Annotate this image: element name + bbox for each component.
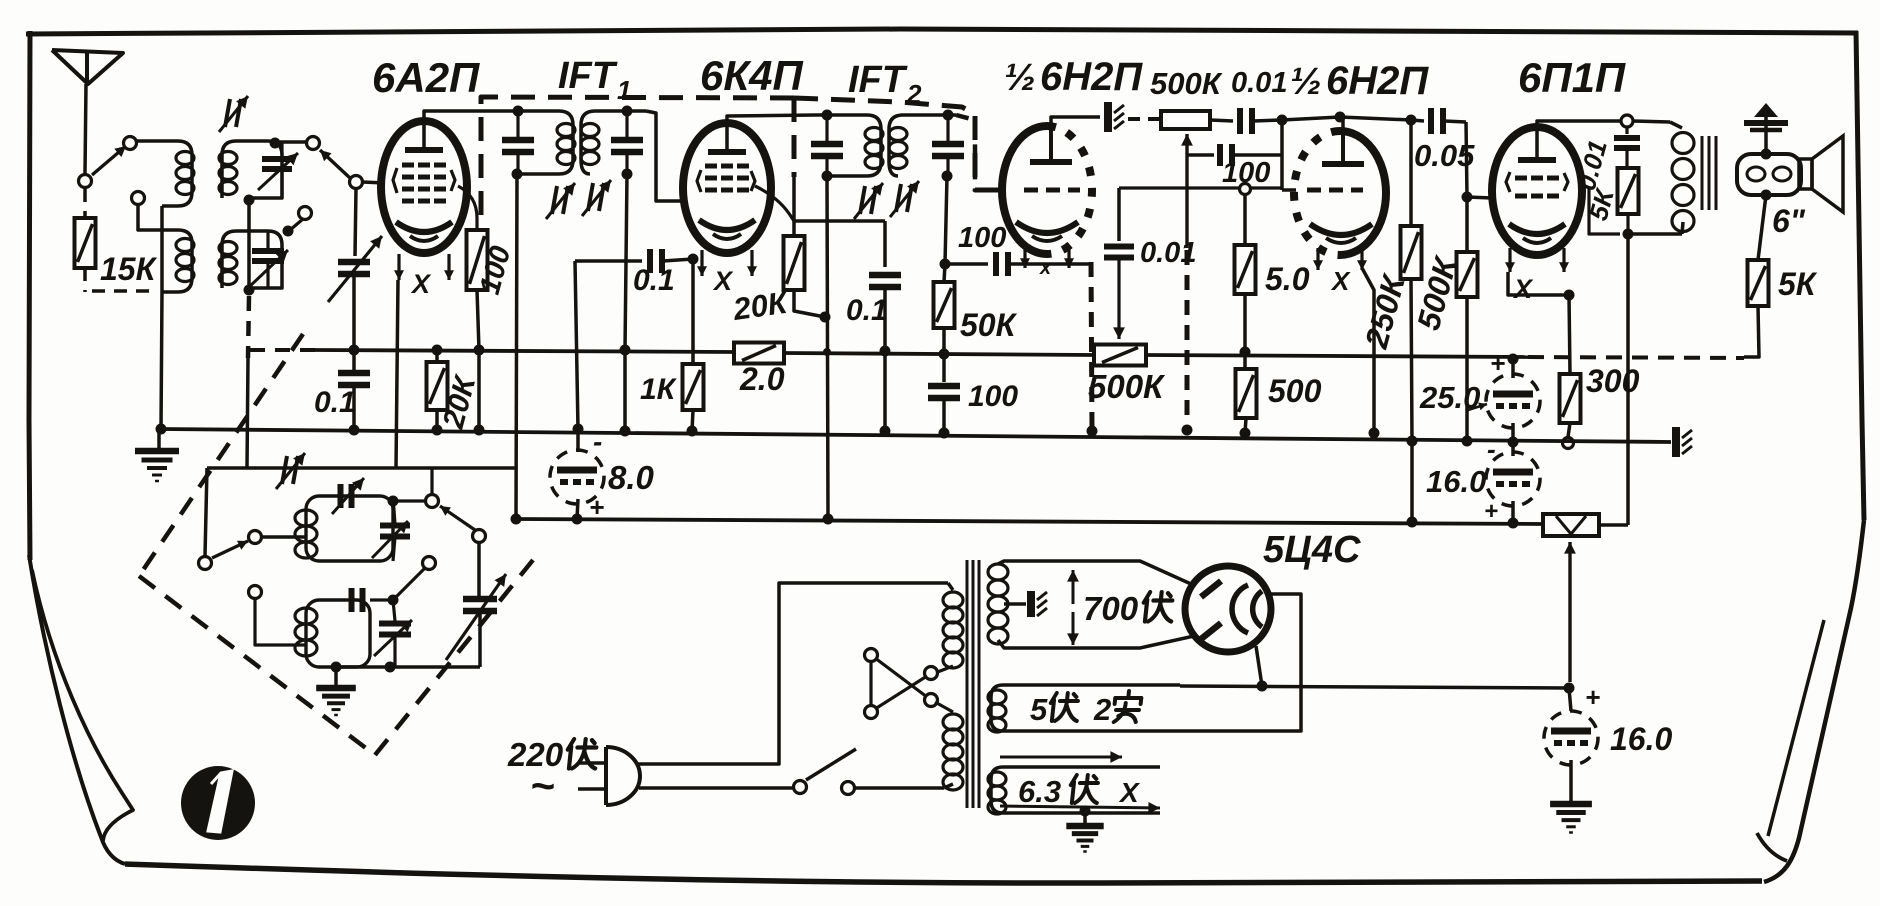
- 5V winding box: [991, 685, 1180, 731]
- band switch arm S1b: [320, 150, 350, 178]
- tube 6N2P-1 envelope: [1002, 126, 1092, 254]
- osc bottom wire: [336, 665, 480, 669]
- node 100 branch: [940, 259, 951, 270]
- cap 100 pot: [1187, 144, 1282, 166]
- wire 5C4S filament out: [1256, 646, 1262, 686]
- tube 6A2P envelope: [381, 121, 467, 253]
- resistor 300: [1560, 295, 1581, 437]
- speaker chassis symbol: [1744, 103, 1788, 154]
- tube 6P1P cathode wire: [1508, 272, 1569, 295]
- wire 20K to B feed: [794, 290, 825, 317]
- cap 16.0 first: [1486, 442, 1540, 523]
- primary tap contact U1: [925, 667, 938, 680]
- osc switch contact C1: [199, 557, 212, 570]
- variable cap VC1: [328, 236, 382, 302]
- tube 6N2P-1 cathode arc: [1016, 222, 1078, 241]
- wire pot to OT column: [1599, 523, 1628, 527]
- node IFT1 pri top: [513, 106, 524, 117]
- svg-text:+: +: [1585, 682, 1600, 712]
- osc contact E1: [423, 557, 436, 570]
- wire grid2 stub: [1282, 188, 1296, 192]
- svg-text:16.0: 16.0: [1610, 721, 1672, 757]
- tube 6A2P internals: [396, 150, 452, 241]
- node cathode2 gnd: [1369, 428, 1380, 439]
- node output grid: [1462, 192, 1473, 203]
- trim symbol osc: [276, 453, 305, 489]
- svg-text:50К: 50К: [960, 307, 1018, 343]
- svg-text:0.1: 0.1: [633, 264, 675, 297]
- tube 6N2P-1 pins: [1020, 246, 1074, 268]
- wire 100 to AVC bus: [477, 290, 479, 350]
- cap IFT2 secondary: [932, 115, 964, 176]
- IFT1 secondary box: [581, 111, 646, 174]
- tube 6A2P grid brackets: [393, 168, 455, 193]
- node L3b right: [388, 595, 399, 606]
- tube 6N2P-1 anode wire: [1051, 117, 1100, 126]
- svg-text:500К: 500К: [1150, 66, 1223, 101]
- wire 5K to bus: [1744, 306, 1759, 357]
- wire 0.05 down: [1466, 122, 1467, 197]
- page curl bottom-left inner fold2: [32, 570, 133, 841]
- wire 5K tone down: [1626, 214, 1629, 234]
- tube 5C4S envelope: [1185, 566, 1271, 652]
- node 50K AVC: [939, 349, 950, 360]
- chassis cap plate1: [1108, 102, 1124, 132]
- osc coil L3a box: [306, 496, 393, 561]
- coil L2a loops: [219, 152, 237, 195]
- node 8.0 bottom: [572, 514, 583, 525]
- node 25 gnd: [1508, 437, 1519, 448]
- osc switch contact D1: [426, 495, 439, 508]
- wire plate2 link: [1282, 117, 1340, 120]
- grid node contact: [350, 176, 363, 189]
- svg-text:2: 2: [1093, 692, 1111, 727]
- 6.3V winding box: [991, 767, 1160, 813]
- svg-text:100: 100: [958, 222, 1006, 254]
- page curl bottom-left outer edge: [29, 555, 125, 864]
- IFT1 secondary loops: [581, 124, 599, 165]
- IFT2 primary box: [816, 115, 881, 176]
- node IFT2 pri top: [822, 110, 833, 121]
- pot filter body: [1543, 514, 1599, 536]
- osc switch arm: [212, 541, 248, 558]
- switch contact B1: [307, 137, 320, 150]
- tube 6P1P beam brackets: [1506, 172, 1568, 192]
- node 0.1 gnd: [349, 425, 360, 436]
- node 1K gnd: [687, 426, 698, 437]
- tube 6K4P anode wire: [727, 115, 816, 152]
- tube 6N2P-2 plate: [1322, 131, 1364, 164]
- resistor 2.0 bus: [734, 343, 784, 364]
- svg-text:-: -: [593, 426, 602, 457]
- plug prong bottom: [578, 787, 606, 791]
- node grid2 top: [1277, 115, 1288, 126]
- coil L1a primary box: [160, 141, 192, 206]
- wire mains bottom: [639, 786, 793, 790]
- tube 6A2P pins: [394, 254, 454, 280]
- tube 6N2P-2 envelope: [1294, 131, 1386, 255]
- tube 6N2P-2 cathode arc: [1310, 224, 1372, 243]
- resistor 500K avc: [1094, 345, 1146, 366]
- page border bottom edge: [125, 864, 1762, 883]
- wire IFT2 sec bottom down: [945, 176, 947, 264]
- wire 100 below AVC: [477, 350, 481, 430]
- node 6.3 tap: [1080, 806, 1091, 817]
- svg-text:IFT: IFT: [848, 59, 908, 101]
- osc dashed shield edge C: [375, 560, 533, 755]
- node 250K top: [1406, 115, 1417, 126]
- AVC bus right: [1146, 355, 1528, 357]
- cap 0.01 tone: [1614, 127, 1640, 168]
- pot 500K dashes: [1128, 117, 1159, 121]
- IFT2 primary loops: [865, 128, 883, 169]
- ground bus left end dot: [156, 424, 167, 435]
- node 25 top: [1508, 354, 1519, 365]
- wire bobbin to 5K: [1758, 195, 1766, 260]
- node IFT1 sec bottom: [622, 169, 633, 180]
- node bobbin top: [1761, 149, 1772, 160]
- AVC bus dashed left end: [250, 348, 315, 352]
- node IFT2 sec top: [943, 110, 954, 121]
- tube 6N2P-2 anode wire: [1341, 117, 1345, 131]
- pot wiper arrow: [1564, 542, 1576, 682]
- tube 6K4P grid brackets: [697, 170, 755, 192]
- coil L2b secondary box: [222, 231, 282, 288]
- cap IFT1 primary: [502, 111, 534, 174]
- primary tap contact U2: [925, 694, 938, 707]
- arrow 25 label: [1468, 403, 1487, 411]
- resistor 250K: [1401, 120, 1422, 441]
- svg-text:0.1: 0.1: [314, 386, 356, 419]
- resistor 500: [1236, 352, 1257, 433]
- trim symbol band2: [219, 96, 248, 132]
- resistor 500K grid: [1457, 197, 1478, 441]
- node 8.0 top: [573, 424, 584, 435]
- svg-text:5.0: 5.0: [1265, 261, 1310, 297]
- node B+ IFT1: [511, 514, 522, 525]
- svg-text:6Н2П: 6Н2П: [1040, 55, 1143, 99]
- svg-text:0.01: 0.01: [1140, 237, 1196, 269]
- svg-text:-: -: [1487, 434, 1496, 464]
- osc cap right arrow: [372, 521, 408, 558]
- osc top wire: [207, 466, 516, 470]
- svg-text:1: 1: [617, 75, 631, 105]
- resistor 20K avc: [427, 350, 448, 430]
- tube 5C4S filament: [1232, 585, 1262, 633]
- tube 6K4P envelope: [683, 123, 771, 253]
- IFT1 shield dashed box: [481, 97, 1000, 215]
- pot 500K body: [1161, 111, 1210, 129]
- svg-text:300: 300: [1586, 363, 1640, 399]
- node 20K top: [432, 345, 443, 356]
- wire grid1 dashed from IFT2: [956, 115, 1002, 190]
- svg-text:8.0: 8.0: [608, 459, 655, 496]
- cap IFT2 primary: [811, 115, 843, 176]
- IFT1 primary box: [506, 111, 573, 174]
- ground 6.3: [1066, 811, 1103, 852]
- node plate2: [1335, 112, 1346, 123]
- B plus bus: [516, 519, 1543, 524]
- mains switch contact left: [794, 781, 807, 794]
- node VC1 AVC: [349, 345, 360, 356]
- IFT1 primary loops: [557, 124, 575, 165]
- node 250K B: [1407, 517, 1418, 528]
- contact anode out: [1621, 115, 1633, 127]
- node IFT1 pri bottom: [512, 169, 523, 180]
- label IFT1: [558, 55, 631, 105]
- wire L1b bottom to ground bus: [161, 292, 162, 429]
- HV arrows: [1067, 570, 1079, 645]
- wire IFT1 sec below AVC: [623, 350, 627, 431]
- wire 1K column: [691, 259, 695, 364]
- svg-text:15К: 15К: [100, 251, 158, 287]
- svg-text:+: +: [1484, 498, 1498, 525]
- plug prong top: [578, 761, 606, 765]
- tube 6A2P cathode wire: [396, 280, 398, 468]
- wire VC2 column lower: [478, 611, 482, 667]
- wire grid to 6P1P: [1467, 197, 1492, 198]
- wire D1 up: [430, 468, 433, 494]
- tube 6A2P anode wire: [424, 111, 506, 150]
- IFT2 secondary loops: [889, 128, 907, 169]
- figure badge 1: [181, 766, 255, 840]
- node 0.1 screen AVC: [880, 346, 891, 357]
- tube 6N2P-1 grid: [1024, 188, 1080, 193]
- node 0.1 screen gnd: [880, 426, 891, 437]
- wire cathode1 dashed: [1091, 262, 1092, 431]
- primary crossover wires: [871, 658, 927, 709]
- node 0.1 grid join: [688, 254, 699, 265]
- tube 6P1P screen wire: [1589, 189, 1620, 234]
- svg-text:+: +: [1490, 348, 1505, 378]
- cap 0.05: [1411, 108, 1466, 134]
- wire grid node to 6A2P: [362, 182, 384, 183]
- HV winding loops: [988, 564, 1008, 644]
- osc cap right: [380, 496, 410, 561]
- svg-text:5: 5: [1030, 692, 1048, 727]
- svg-text:½: ½: [1004, 57, 1036, 99]
- osc cap mid: [352, 588, 363, 612]
- page border top edge: [26, 29, 1858, 34]
- wire B2 to L2b: [290, 219, 303, 230]
- tube 6N2P-2 grid: [1307, 188, 1363, 193]
- trimmer cap C2a: [262, 141, 292, 198]
- cap 0.1 screen: [869, 221, 901, 430]
- switch contact A2: [124, 137, 137, 150]
- coil L2b loops: [219, 242, 237, 285]
- svg-text:6": 6": [1772, 203, 1806, 239]
- chassis symbol right: [1676, 427, 1692, 457]
- svg-text:x: x: [1039, 257, 1052, 279]
- osc dashed shield edge A: [139, 334, 303, 576]
- transformer primary upper: [935, 583, 963, 673]
- cap 0.01 avc: [1104, 188, 1134, 339]
- mains switch contact right: [842, 782, 855, 795]
- wire L3b to cap node: [370, 598, 393, 601]
- wire IFT1 sec to 6K4P grid: [646, 111, 683, 201]
- cap 0.1 if: [575, 249, 693, 273]
- node IFT2 sec bottom: [942, 171, 953, 182]
- wire grid node down: [355, 188, 356, 256]
- node 250K gnd: [1407, 436, 1418, 447]
- osc contact F1: [249, 586, 262, 599]
- wire VC2 column upper: [477, 542, 481, 597]
- svg-text:X: X: [1512, 274, 1534, 304]
- mains plug: [606, 747, 640, 805]
- tube 6A2P g2 exit: [458, 186, 477, 230]
- resistor 5K speaker: [1748, 260, 1769, 306]
- node IFT2 B+ cross: [823, 348, 831, 356]
- node L2a bottom: [244, 195, 255, 206]
- transformer core: [967, 560, 979, 808]
- wire L2b bottom dashed: [248, 296, 249, 358]
- pot wiper dashed to gnd: [1185, 250, 1190, 430]
- osc switch arm D: [440, 506, 475, 530]
- padder cap C2b: [252, 231, 284, 288]
- ground bus: [161, 429, 1671, 442]
- wire OT B+ column: [1626, 234, 1630, 525]
- svg-text:700: 700: [1083, 590, 1139, 627]
- svg-text:5Ц4С: 5Ц4С: [1263, 529, 1361, 571]
- osc var cap lower arrow: [374, 620, 412, 656]
- page curl bottom-right hook: [1757, 833, 1787, 861]
- HV winding box: [998, 561, 1194, 648]
- wire 5C4S plate wrap: [1180, 594, 1301, 731]
- page border left edge: [29, 31, 30, 560]
- trimmer arrow C2a: [258, 153, 298, 190]
- svg-text:IFT: IFT: [558, 55, 618, 97]
- resistor 15K: [75, 218, 96, 268]
- variable cap VC2: [446, 574, 506, 660]
- coil L2a primary box: [222, 141, 282, 198]
- node IFT1 sec top: [622, 106, 633, 117]
- transformer primary lower: [935, 702, 963, 790]
- padder arrow C2b: [248, 250, 288, 288]
- svg-text:2: 2: [906, 79, 922, 109]
- wire 0.1 left down: [575, 261, 578, 429]
- osc coil L3b box: [306, 600, 370, 667]
- resistor 1K: [683, 364, 704, 410]
- switch contact B2: [299, 207, 312, 220]
- speaker voice coil bobbin: [1737, 154, 1801, 195]
- node 100 gnd: [474, 425, 485, 436]
- switch contact node A1: [79, 175, 92, 188]
- svg-text:5К: 5К: [1778, 266, 1818, 302]
- label IFT2: [848, 59, 922, 109]
- node wiper gnd: [1182, 425, 1193, 436]
- svg-text:6К4П: 6К4П: [700, 52, 804, 99]
- primary tap contact V1: [865, 649, 878, 662]
- cap 0.1 input: [338, 350, 370, 430]
- node out junction: [1564, 683, 1575, 694]
- node bobbin bottom: [1761, 190, 1772, 201]
- tube 6P1P pins: [1505, 248, 1569, 272]
- osc switch contact D2: [473, 530, 486, 543]
- wire 250K below gnd: [1410, 441, 1414, 522]
- node 100 AVC: [474, 345, 485, 356]
- svg-text:X: X: [1118, 777, 1141, 808]
- svg-text:2.0: 2.0: [739, 361, 785, 397]
- wire A2 to L1: [136, 139, 160, 143]
- page curl bottom-right inner fold: [1768, 620, 1824, 836]
- AVC bus mid: [784, 353, 1094, 355]
- contact 300 gnd: [1563, 438, 1574, 449]
- cap 16.0 second: [1544, 688, 1598, 802]
- resistor 50K: [934, 264, 955, 354]
- wire audio grid line: [1119, 186, 1282, 189]
- wire IFT2 pri bottom B+ feed: [827, 176, 828, 519]
- node OT bottom: [1623, 229, 1634, 240]
- resistor 100 screen: [467, 230, 488, 290]
- primary tap contact V2: [865, 706, 878, 719]
- contact 5.0 top: [1240, 184, 1251, 195]
- tube 6P1P envelope: [1492, 127, 1582, 255]
- heater arrow bottom: [1000, 802, 1160, 814]
- svg-text:6Н2П: 6Н2П: [1326, 59, 1429, 103]
- node L2a top: [270, 138, 281, 149]
- resistor 5K tone: [1618, 168, 1639, 214]
- cap 0.01 coupling top: [1210, 108, 1282, 134]
- svg-text:X: X: [1330, 266, 1351, 296]
- cap 100 det: [928, 354, 960, 433]
- wire switch to primary: [854, 786, 944, 790]
- antenna: [52, 50, 123, 173]
- node B+ IFT2: [823, 514, 834, 525]
- coil L2 center column: [247, 200, 251, 292]
- pot 500K wiper arrow: [1181, 134, 1193, 248]
- node 500Kg gnd: [1462, 436, 1473, 447]
- wire mains top: [638, 583, 948, 764]
- svg-text:6.3: 6.3: [1018, 774, 1061, 809]
- tube 6K4P screen exit: [755, 186, 794, 221]
- output transformer core: [1702, 136, 1716, 210]
- svg-text:500К: 500К: [1088, 368, 1166, 405]
- wire L1 center column: [160, 206, 164, 292]
- svg-text:500: 500: [1268, 373, 1322, 409]
- wire IFT1 sec bottom to AVC: [625, 174, 627, 350]
- node cathode1 gnd: [1087, 426, 1098, 437]
- coil L1b loops: [176, 239, 194, 282]
- AVC bus left: [315, 350, 734, 352]
- svg-text:0.01: 0.01: [1231, 67, 1287, 99]
- ground symbol left: [135, 429, 179, 481]
- cap 100 grid: [945, 252, 1090, 276]
- tap contact L1: [132, 192, 145, 205]
- 5V winding loops: [988, 690, 1006, 732]
- wire OT bottom: [1628, 232, 1682, 236]
- node osc bottom left: [331, 662, 342, 673]
- output transformer primary: [1670, 122, 1694, 234]
- wire tap L1: [138, 205, 160, 230]
- resistor 20K screen dashes: [792, 177, 796, 236]
- svg-text:~: ~: [530, 762, 555, 809]
- osc dashed shield edge B: [139, 576, 375, 755]
- tube 6N2P-2 pins: [1313, 248, 1367, 270]
- node IFT1 sec AVC: [620, 345, 631, 356]
- node 5.0 bus: [1240, 347, 1251, 358]
- osc coil L3b loops: [295, 608, 317, 656]
- svg-text:100: 100: [968, 380, 1018, 413]
- IFT1 trimmer 2: [582, 180, 611, 216]
- osc left drop: [205, 468, 207, 556]
- wire L3a to switch D1: [398, 499, 426, 502]
- wire grid2 column: [1280, 120, 1284, 190]
- node 16a B: [1508, 518, 1519, 529]
- tube 6K4P internals: [699, 152, 755, 239]
- wire anode to OT: [1633, 121, 1670, 122]
- speaker horn: [1799, 136, 1843, 212]
- cap IFT1 secondary: [611, 111, 643, 174]
